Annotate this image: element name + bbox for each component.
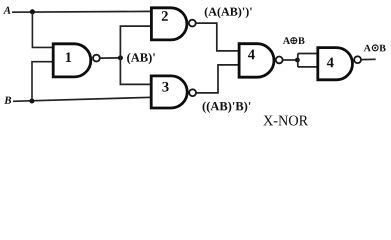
wire gate 3 output to gate 4 bottom input	[196, 65, 239, 93]
nand gate 1	[53, 44, 100, 77]
wire gate 4 second output	[361, 58, 376, 60]
label A xor B	[283, 37, 305, 44]
wire gate 4 output	[283, 59, 298, 61]
wire node up to gate 2 bottom input	[120, 26, 151, 58]
label (A(AB)')'	[205, 7, 252, 18]
input label B	[4, 97, 11, 104]
wire A horizontal to gate 2 top input	[12, 10, 152, 13]
nand gate 3	[151, 76, 196, 108]
wire gate 1 output	[100, 57, 121, 59]
input label A	[3, 7, 10, 14]
node A xor B junction	[295, 58, 300, 63]
caption X-NOR	[263, 115, 308, 125]
label (AB)'	[127, 53, 155, 64]
nand gate 4 second	[318, 48, 361, 80]
nand gate 2	[151, 8, 195, 40]
wire tied-input bracket of gate 4 second	[298, 54, 318, 67]
label ((AB)'B)'	[203, 102, 251, 113]
wire gate 2 output to gate 4 top input	[196, 23, 240, 51]
wire B rise to gate 1 bottom input	[32, 62, 55, 101]
node (AB)' junction	[118, 55, 123, 60]
nand gate 4 first	[239, 44, 283, 77]
node B junction	[29, 99, 34, 104]
wire B horizontal to gate 3 bottom input	[13, 97, 152, 101]
node A junction	[30, 9, 35, 14]
wire A drop to gate 1 top input	[32, 12, 54, 48]
label A xnor B	[364, 45, 386, 52]
wire node down to gate 3 top input	[120, 58, 152, 85]
